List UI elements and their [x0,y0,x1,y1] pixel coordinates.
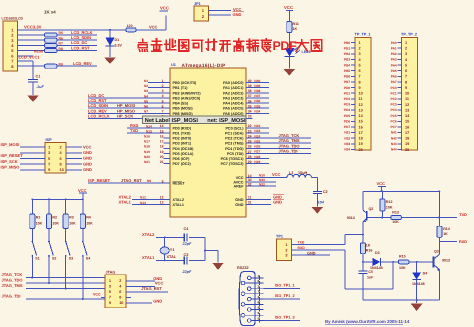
svg-text:PA7: PA7 [391,80,397,84]
svg-text:LCD_VCC1: LCD_VCC1 [19,54,41,59]
svg-text:R14: R14 [443,227,450,231]
svg-text:7: 7 [109,296,111,300]
svg-text:PC7: PC7 [390,125,396,129]
svg-text:6: 6 [359,69,361,73]
svg-text:21: 21 [160,160,164,164]
svg-text:9013: 9013 [442,258,450,262]
svg-text:PA3: PA3 [391,58,397,62]
svg-text:ISP_MOSI: ISP_MOSI [1,142,20,147]
svg-text:PA4 (ADC4): PA4 (ADC4) [223,102,244,106]
svg-text:R1: R1 [36,216,41,220]
svg-text:GND: GND [83,161,92,166]
svg-text:2: 2 [359,47,361,51]
svg-text:net: ISP_MOSI: net: ISP_MOSI [207,118,246,124]
svg-text:VCC: VCC [377,181,386,186]
svg-text:16: 16 [359,125,363,129]
svg-text:1K x4: 1K x4 [44,10,56,15]
svg-text:12: 12 [359,103,363,107]
svg-text:3: 3 [285,254,287,258]
svg-text:JTAG_TDI: JTAG_TDI [279,148,298,153]
svg-text:N9: N9 [147,179,151,183]
svg-text:1nF: 1nF [367,276,374,280]
svg-text:ISP_MISO: ISP_MISO [1,165,20,170]
svg-text:JP1: JP1 [194,2,201,6]
svg-text:PC6: PC6 [390,119,396,123]
svg-text:N32: N32 [344,136,350,140]
svg-text:N34: N34 [344,148,350,152]
svg-text:D1: D1 [115,38,120,42]
svg-text:2: 2 [285,248,287,252]
svg-text:R2: R2 [52,216,57,220]
svg-text:11: 11 [359,97,363,101]
svg-text:PB1: PB1 [344,46,350,50]
svg-text:LCD_REV: LCD_REV [73,61,92,66]
svg-text:AREF: AREF [233,185,244,189]
svg-text:TXD: TXD [298,241,305,245]
svg-text:PB3 (AIN1/OC0): PB3 (AIN1/OC0) [173,96,201,100]
svg-text:RXD: RXD [459,240,467,244]
svg-text:16: 16 [405,125,409,129]
svg-text:N12: N12 [140,196,146,200]
svg-text:28: 28 [248,155,252,159]
svg-text:XTAL1: XTAL1 [173,203,184,207]
svg-text:VCC: VCC [83,144,92,149]
svg-text:26: 26 [248,145,252,149]
svg-text:9: 9 [405,86,407,90]
svg-text:XTAL1: XTAL1 [119,199,132,204]
svg-text:GND: GND [307,251,316,255]
svg-text:PD0: PD0 [344,86,350,90]
svg-text:N22: N22 [254,124,260,128]
svg-text:34: 34 [248,110,252,114]
svg-text:R13: R13 [392,210,399,214]
svg-text:10K: 10K [386,205,393,209]
svg-text:N32: N32 [259,182,265,186]
svg-text:1K: 1K [293,27,298,31]
svg-text:18: 18 [359,137,363,141]
svg-text:PA2: PA2 [391,52,397,56]
svg-text:VCC: VCC [155,281,164,286]
svg-text:ISP_SCK: ISP_SCK [1,159,18,164]
svg-text:N42: N42 [391,136,397,140]
svg-text:JTAG_TDI: JTAG_TDI [2,294,21,299]
svg-text:10: 10 [119,301,123,305]
svg-text:5: 5 [405,63,407,67]
svg-text:40: 40 [248,79,252,83]
svg-text:N41: N41 [391,131,397,135]
svg-text:GND: GND [273,200,282,205]
svg-text:N17: N17 [144,140,150,144]
svg-text:PB5: PB5 [344,69,350,73]
svg-text:ISO_TP1_3: ISO_TP1_3 [275,315,295,319]
svg-text:PC7 (TOSC2): PC7 (TOSC2) [221,162,245,166]
svg-text:JTAG_RST: JTAG_RST [141,286,162,291]
svg-text:N40: N40 [254,79,260,83]
svg-text:8: 8 [60,163,62,167]
svg-text:12: 12 [405,103,409,107]
svg-text:PA6 (ADC6): PA6 (ADC6) [223,112,244,116]
svg-text:C1: C1 [36,75,41,79]
svg-text:PD4: PD4 [344,108,350,112]
svg-text:S1: S1 [35,256,39,260]
svg-text:PC0: PC0 [390,86,396,90]
svg-text:24: 24 [248,134,252,138]
svg-text:C5: C5 [368,270,373,274]
svg-text:TP_TP_2: TP_TP_2 [401,33,417,37]
svg-text:5: 5 [48,157,50,161]
svg-text:18: 18 [160,145,164,149]
svg-text:15: 15 [405,120,409,124]
svg-text:PA0: PA0 [391,41,397,45]
svg-text:27: 27 [248,150,252,154]
svg-text:PA5 (ADC5): PA5 (ADC5) [223,107,244,111]
svg-text:JTAG_TCK: JTAG_TCK [2,272,23,277]
svg-text:PC4 (TDO): PC4 (TDO) [225,147,244,151]
svg-text:XTAL2: XTAL2 [142,232,155,237]
svg-text:N34: N34 [254,109,260,113]
svg-text:TXD: TXD [459,213,467,217]
svg-text:R6: R6 [59,36,63,40]
svg-text:PC0 (SCL): PC0 (SCL) [225,126,244,130]
svg-text:GND: GND [153,298,162,303]
svg-text:N35: N35 [254,104,260,108]
svg-text:N29: N29 [254,160,260,164]
svg-text:PC5: PC5 [390,114,396,118]
svg-text:PB2: PB2 [344,52,350,56]
svg-text:N38: N38 [254,89,260,93]
svg-text:PC5 (TDI): PC5 (TDI) [227,152,244,156]
svg-text:17: 17 [359,131,363,135]
svg-text:3: 3 [48,151,50,155]
svg-text:PA0 (ADC0): PA0 (ADC0) [223,81,244,85]
svg-text:VCC: VCC [284,5,293,10]
svg-text:TXD: TXD [130,128,138,133]
svg-text:22pF: 22pF [182,270,193,274]
svg-text:RESET: RESET [173,182,186,186]
svg-text:ISP_RESET: ISP_RESET [88,178,111,183]
svg-text:9: 9 [359,86,361,90]
svg-text:PD5 (OC1A): PD5 (OC1A) [173,152,195,156]
svg-text:N25: N25 [254,139,260,143]
svg-text:PC3: PC3 [390,103,396,107]
svg-text:PD1 (TXD): PD1 (TXD) [173,132,192,136]
svg-text:35: 35 [248,104,252,108]
svg-text:N13: N13 [140,201,146,205]
svg-text:PD6 (ICP): PD6 (ICP) [173,157,191,161]
svg-text:31: 31 [248,201,252,205]
svg-text:3: 3 [359,52,361,56]
svg-text:PC1 (SDA): PC1 (SDA) [225,132,244,136]
svg-text:N28: N28 [254,155,260,159]
svg-text:S4: S4 [86,256,90,260]
svg-text:10: 10 [405,92,409,96]
svg-text:By Amisk (www.OurAVR.com 2005-: By Amisk (www.OurAVR.com 2005-11-14 [325,319,410,324]
svg-text:S2: S2 [52,256,56,260]
svg-text:N1: N1 [144,79,148,83]
svg-text:D4: D4 [423,271,428,275]
svg-text:PB0: PB0 [344,41,350,45]
svg-text:20: 20 [160,155,164,159]
svg-text:13: 13 [405,108,409,112]
svg-text:8: 8 [405,80,407,84]
svg-text:RS232: RS232 [237,266,249,270]
svg-text:10K: 10K [86,222,93,226]
svg-text:N44: N44 [391,148,397,152]
svg-text:1: 1 [109,279,111,283]
svg-text:3.3V: 3.3V [115,44,123,48]
svg-text:PB6: PB6 [344,75,350,79]
svg-text:GND: GND [83,150,92,155]
svg-text:N19: N19 [144,150,150,154]
svg-text:PB0 (XCK/T0): PB0 (XCK/T0) [173,81,198,85]
svg-text:N39: N39 [254,84,260,88]
svg-text:2: 2 [405,47,407,51]
svg-text:PA1: PA1 [391,46,397,50]
svg-text:U1: U1 [171,63,176,67]
svg-text:6: 6 [405,69,407,73]
svg-text:ISP: ISP [46,138,53,142]
svg-text:VCC: VCC [272,172,281,177]
svg-text:9014: 9014 [347,216,355,220]
svg-text:PC3 (TMS): PC3 (TMS) [225,142,244,146]
svg-text:PC2: PC2 [390,97,396,101]
svg-text:VCC: VCC [149,24,158,29]
svg-text:D3: D3 [375,251,380,255]
svg-text:N2: N2 [144,84,148,88]
svg-text:PC2 (TCK): PC2 (TCK) [225,137,244,141]
svg-text:GND: GND [233,12,242,17]
svg-text:19: 19 [405,142,409,146]
svg-text:HP_SCK: HP_SCK [117,113,133,118]
svg-text:10K: 10K [392,220,399,224]
svg-text:6: 6 [60,157,62,161]
svg-text:VCC: VCC [93,292,101,296]
svg-text:.1uF: .1uF [36,85,44,89]
svg-text:XTAL1: XTAL1 [142,255,155,260]
svg-text:R12: R12 [386,200,393,204]
svg-text:PD3 (INT1): PD3 (INT1) [173,142,192,146]
svg-text:PA5: PA5 [391,69,397,73]
svg-text:PD0 (RXD): PD0 (RXD) [173,126,192,130]
svg-text:15: 15 [359,120,363,124]
svg-text:120: 120 [127,24,133,28]
svg-text:11: 11 [248,196,252,200]
svg-text:PB1 (T1): PB1 (T1) [173,86,189,90]
svg-text:10: 10 [359,92,363,96]
svg-text:1: 1 [48,146,50,150]
svg-text:19: 19 [160,150,164,154]
svg-text:32: 32 [248,182,252,186]
svg-text:PA1 (ADC1): PA1 (ADC1) [223,86,244,90]
svg-text:N36: N36 [254,99,260,103]
svg-text:RES8: RES8 [34,50,43,54]
svg-text:10K: 10K [69,222,76,226]
svg-text:PC6 (TOSC1): PC6 (TOSC1) [221,157,245,161]
svg-text:9: 9 [48,168,50,172]
svg-text:XTAL: XTAL [167,255,177,259]
svg-text:N27: N27 [254,150,260,154]
svg-text:R8: R8 [59,47,63,51]
svg-text:33: 33 [248,115,252,119]
svg-text:8: 8 [359,80,361,84]
svg-text:JTAG_TMS: JTAG_TMS [2,283,23,288]
svg-text:C3: C3 [184,253,189,257]
svg-text:GND: GND [235,203,244,207]
svg-text:17: 17 [405,131,409,135]
svg-text:PB4: PB4 [344,63,350,67]
svg-text:Q2: Q2 [369,207,374,211]
svg-text:PD3: PD3 [344,103,350,107]
svg-text:ISO_TP1_2: ISO_TP1_2 [275,294,295,298]
svg-text:8: 8 [119,296,121,300]
svg-text:1: 1 [285,243,287,247]
svg-text:6: 6 [119,290,121,294]
svg-text:23: 23 [248,129,252,133]
svg-text:N21: N21 [144,160,150,164]
svg-text:38: 38 [248,89,252,93]
svg-text:R4: R4 [86,216,91,220]
svg-text:PC4: PC4 [390,108,396,112]
svg-text:25: 25 [248,140,252,144]
svg-text:1N4148: 1N4148 [412,282,425,286]
svg-text:22: 22 [248,124,252,128]
svg-text:PD2: PD2 [344,97,350,101]
svg-text:104: 104 [318,201,325,205]
svg-text:R9: R9 [59,62,63,66]
svg-text:10: 10 [60,168,64,172]
svg-text:37: 37 [248,94,252,98]
svg-text:GND: GND [83,156,92,161]
svg-text:1K: 1K [366,243,371,247]
svg-text:LCD_RST: LCD_RST [71,45,90,50]
svg-text:N37: N37 [254,94,260,98]
svg-text:7: 7 [48,163,50,167]
svg-text:16: 16 [160,134,164,138]
svg-text:GND: GND [83,167,92,172]
svg-text:13: 13 [359,108,363,112]
svg-text:PA6: PA6 [391,75,397,79]
svg-text:10K: 10K [36,222,43,226]
svg-text:9: 9 [109,301,111,305]
svg-text:JTAG_RST: JTAG_RST [121,178,142,183]
svg-text:2: 2 [60,146,62,150]
svg-text:LED1: LED1 [302,50,311,54]
svg-text:36: 36 [248,99,252,103]
svg-text:PB5 (MOSI): PB5 (MOSI) [173,107,194,111]
svg-text:VCC: VCC [160,6,169,11]
svg-text:N24: N24 [254,134,260,138]
svg-text:PA3 (ADC3): PA3 (ADC3) [223,96,244,100]
svg-text:PA2 (ADC2): PA2 (ADC2) [223,91,244,95]
svg-text:S3: S3 [69,256,73,260]
svg-text:7: 7 [405,75,407,79]
svg-text:10K: 10K [52,222,59,226]
svg-text:N43: N43 [391,142,397,146]
svg-text:R3: R3 [69,216,74,220]
svg-text:Y1: Y1 [170,248,175,252]
svg-text:N23: N23 [254,129,260,133]
svg-text:PD2 (INT0): PD2 (INT0) [173,137,192,141]
svg-text:18: 18 [405,137,409,141]
svg-text:PDF: PDF [273,39,298,53]
svg-text:N14: N14 [146,124,152,128]
svg-text:22pF: 22pF [182,242,193,246]
svg-text:PB6 (MISO): PB6 (MISO) [173,112,194,116]
svg-text:29: 29 [248,160,252,164]
svg-text:5: 5 [109,290,111,294]
svg-text:1: 1 [359,41,361,45]
svg-text:17: 17 [160,140,164,144]
svg-text:C2: C2 [323,190,328,194]
svg-text:Q3: Q3 [434,249,439,253]
svg-text:11: 11 [405,97,409,101]
svg-text:3: 3 [405,52,407,56]
svg-text:VCC3.3V: VCC3.3V [24,25,42,30]
svg-text:PB3: PB3 [344,58,350,62]
svg-text:R15: R15 [399,255,406,259]
svg-text:TP1: TP1 [276,235,283,239]
svg-text:N18: N18 [144,145,150,149]
svg-text:PB7: PB7 [344,80,350,84]
svg-text:R16: R16 [366,248,373,252]
svg-text:PD4 (OC1B): PD4 (OC1B) [173,147,195,151]
svg-text:N33: N33 [344,142,350,146]
svg-text:JTAG: JTAG [106,270,116,274]
svg-text:TP_TP_1: TP_TP_1 [355,33,371,37]
svg-text:R11: R11 [293,22,299,26]
svg-text:N20: N20 [144,155,150,159]
svg-text:Net Label ISP_MOSI: Net Label ISP_MOSI [145,117,199,124]
svg-text:7: 7 [359,75,361,79]
svg-text:20: 20 [359,148,363,152]
svg-text:PD7: PD7 [344,125,350,129]
svg-text:3: 3 [109,285,111,289]
svg-text:PB2 (AIN0/INT2): PB2 (AIN0/INT2) [173,91,202,95]
svg-text:PA4: PA4 [391,63,397,67]
svg-text:ISP_RESET: ISP_RESET [1,153,24,158]
svg-text:PD6: PD6 [344,119,350,123]
svg-text:2: 2 [119,279,121,283]
svg-text:GND: GND [235,198,244,202]
svg-text:N16: N16 [144,135,150,139]
svg-text:N31: N31 [344,131,350,135]
svg-text:1: 1 [405,41,407,45]
svg-text:10K: 10K [399,266,406,270]
svg-text:N3: N3 [144,89,148,93]
svg-text:PD5: PD5 [344,114,350,118]
svg-text:PB4 (SS): PB4 (SS) [173,102,189,106]
svg-text:10uH: 10uH [298,171,308,175]
svg-text:5: 5 [359,63,361,67]
svg-text:R7: R7 [59,42,63,46]
svg-text:XTAL2: XTAL2 [173,198,184,202]
svg-text:LCD_RCLK: LCD_RCLK [88,113,110,118]
svg-text:ISO_TP1_1: ISO_TP1_1 [275,284,295,288]
svg-text:N26: N26 [254,145,260,149]
svg-text:PD7 (OC2): PD7 (OC2) [173,162,192,166]
svg-text:PC1: PC1 [390,91,396,95]
svg-text:20: 20 [405,148,409,152]
svg-text:19: 19 [359,142,363,146]
svg-text:RXD: RXD [298,246,306,250]
svg-text:N15: N15 [146,129,152,133]
svg-text:PD1: PD1 [344,91,350,95]
svg-text:1K: 1K [443,232,448,236]
svg-text:VCC: VCC [78,188,87,193]
svg-text:LCD1602LCD: LCD1602LCD [2,17,24,21]
svg-text:39: 39 [248,84,252,88]
svg-text:L1: L1 [289,171,293,175]
